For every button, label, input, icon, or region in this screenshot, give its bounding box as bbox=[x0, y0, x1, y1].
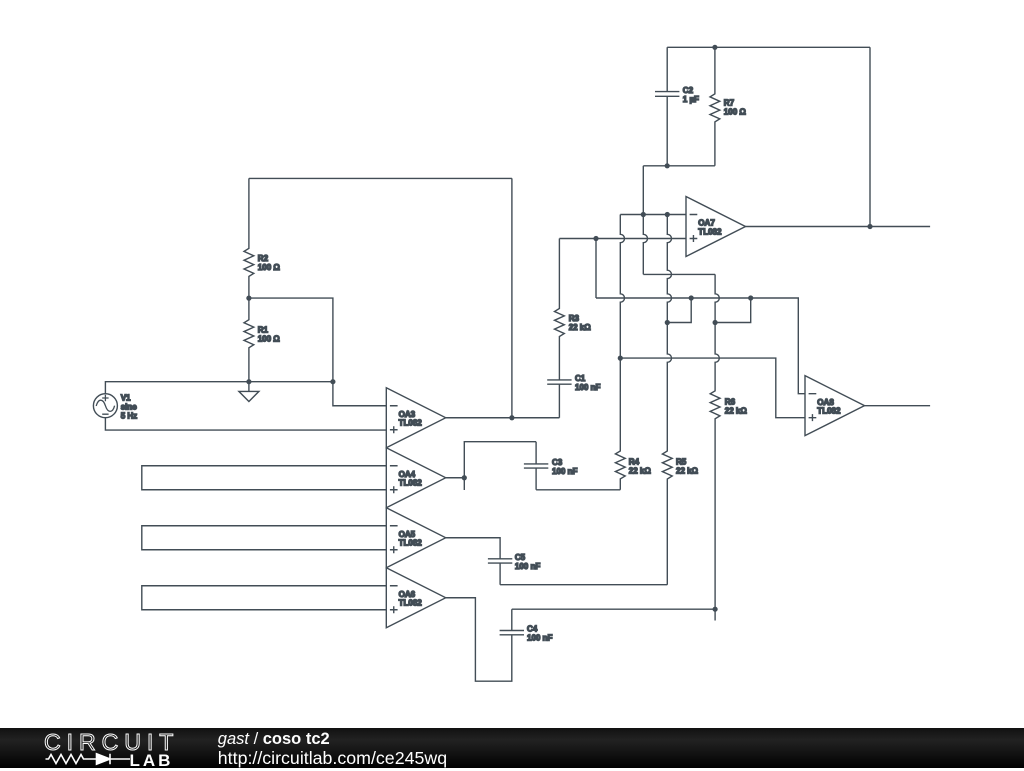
node junction line A x643 bbox=[641, 212, 646, 217]
capacitor C3 bbox=[524, 442, 578, 490]
wire OA6 input loop rectangle bbox=[142, 586, 386, 610]
wire OA4 output with stub bbox=[446, 442, 536, 490]
svg-text:R2: R2 bbox=[258, 254, 269, 263]
svg-text:R5: R5 bbox=[676, 457, 687, 466]
node junction OA3 output x511.9 bbox=[509, 415, 514, 420]
capacitor C5 bbox=[488, 553, 540, 585]
svg-text:100 nF: 100 nF bbox=[527, 634, 552, 643]
node junction line D x750 bbox=[748, 295, 753, 300]
svg-text:100 nF: 100 nF bbox=[515, 562, 540, 571]
node junction C4 wire on x715 bbox=[713, 607, 718, 612]
wire OA7 minus input line A bbox=[620, 214, 686, 216]
wire C3 bottom to R4 bottom bbox=[536, 489, 620, 491]
node junction OA7 output x870 bbox=[867, 224, 872, 229]
svg-text:V1: V1 bbox=[121, 393, 131, 402]
svg-text:100 nF: 100 nF bbox=[575, 383, 600, 392]
ground bbox=[239, 382, 259, 402]
svg-text:22 kΩ: 22 kΩ bbox=[676, 466, 699, 475]
wire feedback vertical x511.9 bbox=[511, 178, 513, 417]
wire line F to OA8 plus bbox=[620, 358, 805, 418]
title line bbox=[218, 730, 330, 749]
svg-text:C2: C2 bbox=[683, 86, 694, 95]
node junction R7 top bbox=[712, 45, 717, 50]
svg-text:OA8: OA8 bbox=[817, 398, 834, 407]
resistor R7 bbox=[710, 47, 746, 166]
op-amp OA3 bbox=[386, 388, 446, 448]
svg-text:TL082: TL082 bbox=[817, 407, 841, 416]
wire OA3 output bbox=[446, 417, 560, 419]
wire V1 bottom to OA3 plus bbox=[105, 418, 386, 430]
capacitor C1 bbox=[547, 374, 600, 418]
op-amp OA6 bbox=[386, 568, 446, 628]
svg-text:100 Ω: 100 Ω bbox=[258, 335, 281, 344]
svg-text:1 µF: 1 µF bbox=[683, 95, 699, 104]
wire feedback top horizontal bbox=[249, 177, 512, 179]
svg-text:100 nF: 100 nF bbox=[552, 467, 577, 476]
svg-text:OA7: OA7 bbox=[698, 219, 715, 228]
svg-text:TL082: TL082 bbox=[399, 419, 423, 428]
footer bar bbox=[0, 728, 1024, 768]
node junction line A x667 bbox=[665, 212, 670, 217]
wire line D horizontal to OA8 minus bbox=[596, 298, 805, 394]
op-amp OA8 bbox=[805, 376, 865, 436]
wire right vertical feedback to OA7 output bbox=[869, 47, 871, 226]
wire OA6 output loop to C4 bbox=[446, 598, 512, 681]
wire line C horizontal bbox=[643, 273, 715, 275]
node junction line B x596 bbox=[593, 236, 598, 241]
resistor R2 bbox=[244, 178, 280, 298]
svg-text:C1: C1 bbox=[575, 374, 586, 383]
op-amp OA7 bbox=[686, 197, 746, 257]
svg-text:TL082: TL082 bbox=[399, 539, 423, 548]
svg-text:OA3: OA3 bbox=[399, 410, 416, 419]
svg-text:22 kΩ: 22 kΩ bbox=[725, 407, 748, 416]
svg-text:sine: sine bbox=[121, 402, 138, 411]
wire top horizontal C2/R7 feedback bbox=[667, 46, 870, 48]
wire vertical x667 with hops + resistor R5 down to C5 wire bbox=[662, 215, 698, 585]
node junction E1 on x667 bbox=[665, 320, 670, 325]
wire vertical x620 with hops + resistor R4 bbox=[615, 215, 651, 490]
capacitor C2 bbox=[655, 47, 699, 166]
op-amp OA4 bbox=[386, 448, 446, 508]
wire C5 bottom to R5 bottom bbox=[500, 584, 667, 586]
svg-text:OA5: OA5 bbox=[399, 530, 416, 539]
wire V1 top to x332.9 bbox=[105, 382, 333, 394]
wire OA7 plus input line B bbox=[559, 238, 686, 240]
wire branch R2R1 to OA3 minus bbox=[249, 298, 386, 406]
svg-text:OA6: OA6 bbox=[399, 590, 416, 599]
node junction ground bbox=[246, 379, 251, 384]
svg-text:22 kΩ: 22 kΩ bbox=[569, 323, 592, 332]
wire vertical x596 from line B to line D bbox=[595, 239, 597, 299]
svg-text:R6: R6 bbox=[725, 398, 736, 407]
svg-text:C3: C3 bbox=[552, 458, 563, 467]
node junction E2 on x715 bbox=[713, 320, 718, 325]
svg-text:R3: R3 bbox=[569, 314, 580, 323]
node junction R2/R1 bbox=[246, 296, 251, 301]
svg-text:TL082: TL082 bbox=[698, 227, 722, 236]
svg-text:C5: C5 bbox=[515, 553, 526, 562]
svg-text:TL082: TL082 bbox=[399, 479, 423, 488]
svg-text:OA4: OA4 bbox=[399, 470, 416, 479]
svg-text:TL082: TL082 bbox=[399, 599, 423, 608]
logo squiggle resistor diode bbox=[45, 752, 131, 766]
wire OA5 input loop rectangle bbox=[142, 526, 386, 550]
wire vertical from C2/R7 block to node A bbox=[642, 166, 644, 215]
url line bbox=[218, 748, 447, 769]
svg-text:R7: R7 bbox=[724, 98, 735, 107]
voltage source V1 bbox=[93, 393, 137, 420]
wire loop E1 bbox=[667, 298, 691, 323]
op-amp OA5 bbox=[386, 508, 446, 568]
node junction line D x691 bbox=[689, 295, 694, 300]
wire loop E2 bbox=[715, 298, 751, 323]
node junction OA4 output bbox=[462, 475, 467, 480]
node junction x332.9 bbox=[330, 379, 335, 384]
svg-text:100 Ω: 100 Ω bbox=[724, 107, 747, 116]
wire C4 top to R6 bottom junction bbox=[512, 608, 715, 610]
node junction line F x620 bbox=[618, 356, 623, 361]
resistor R1 bbox=[244, 298, 280, 382]
capacitor C4 bbox=[500, 609, 553, 642]
CircuitLab logo text bbox=[44, 729, 179, 756]
svg-text:22 kΩ: 22 kΩ bbox=[629, 466, 652, 475]
node junction C2 bottom bbox=[665, 163, 670, 168]
LAB logo text bbox=[130, 751, 174, 771]
wire OA7 output bbox=[746, 226, 931, 228]
wire OA5 output to C5 bbox=[446, 538, 500, 559]
wire bottom of C2/R7 block bbox=[643, 165, 715, 167]
svg-text:C4: C4 bbox=[527, 625, 538, 634]
svg-text:100 Ω: 100 Ω bbox=[258, 263, 281, 272]
wire OA8 output bbox=[865, 405, 931, 407]
svg-text:5 Hz: 5 Hz bbox=[121, 411, 137, 420]
wire vertical 643 from line A down to line C bbox=[643, 215, 647, 275]
wire vertical x715 with hops + resistor R6 down to C4 wire bbox=[710, 274, 747, 620]
svg-text:R1: R1 bbox=[258, 326, 269, 335]
svg-text:R4: R4 bbox=[629, 457, 640, 466]
resistor R3 bbox=[555, 239, 592, 380]
wire OA4 input loop rectangle bbox=[142, 466, 386, 490]
